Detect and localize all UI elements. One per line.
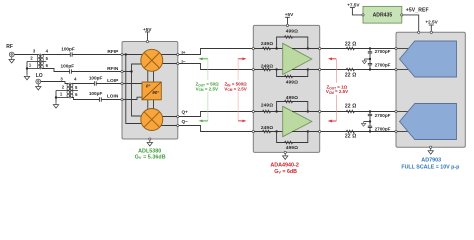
wire LOIP internal xyxy=(123,83,142,85)
wire I+ to amp xyxy=(179,49,253,55)
wire RFIP internal xyxy=(123,54,144,56)
svg-text:499Ω: 499Ω xyxy=(286,79,298,85)
pin (ADC1 IN-) xyxy=(395,68,397,70)
svg-text:RFIP: RFIP xyxy=(107,49,119,55)
svg-text:GV = 6dB: GV = 6dB xyxy=(274,169,297,175)
transformer T1 (RF balun) xyxy=(27,54,46,70)
annotation line ZOUT lower xyxy=(207,92,209,121)
ground (T1 primary) xyxy=(24,74,29,80)
wire C4 to LOIN xyxy=(101,99,122,101)
pin (AD7903 REF) xyxy=(418,31,420,33)
feedback loop R3 499 top xyxy=(277,37,308,49)
wire ADC1 input stubs xyxy=(397,49,408,70)
resistor R2 249 xyxy=(262,68,270,71)
pin (ADC1 IN+) xyxy=(395,47,397,49)
svg-text:ADA4940-2: ADA4940-2 xyxy=(270,162,298,168)
annotation line ZIN lower xyxy=(237,92,239,121)
node junction T1 pins 1-2 xyxy=(26,67,28,69)
svg-text:100pF: 100pF xyxy=(89,91,103,96)
capacitor C1 100pF xyxy=(70,52,72,56)
pin (ADL5380 VCC) xyxy=(146,40,148,42)
wire amp1 +out to ADC xyxy=(321,48,396,50)
pin (AD7903 VDD) xyxy=(430,31,432,33)
wire C3 to LOIP xyxy=(96,83,122,85)
svg-text:22 Ω: 22 Ω xyxy=(345,73,357,79)
wire amp2 top input xyxy=(254,111,282,113)
ground (RF connector shield) xyxy=(9,57,14,63)
pin (amp2 -in) xyxy=(252,130,254,132)
T1 pin numbers xyxy=(29,48,49,68)
wire T2 primary to ground xyxy=(55,91,57,103)
resistor R6 249 xyxy=(262,130,270,133)
pin (I- out) xyxy=(177,62,179,64)
ground (LO connector shield) xyxy=(36,84,41,90)
power symbol +2.5V xyxy=(429,24,434,26)
wire T2 pin4 to C3 xyxy=(72,83,95,85)
pin (amp1 +out) xyxy=(319,47,321,49)
ground (AD7903) xyxy=(428,148,433,154)
wire T1 primary to ground xyxy=(26,62,28,75)
pin (amp1 -out) xyxy=(319,68,321,70)
wire C2 to RFIN xyxy=(71,71,122,73)
svg-text:249Ω: 249Ω xyxy=(261,41,273,47)
pin (ADR435 VOUT) xyxy=(401,14,403,16)
wire amp2 outputs xyxy=(292,112,320,132)
svg-text:100pF: 100pF xyxy=(89,75,103,80)
node junction T2 pins 1-2 xyxy=(55,96,57,98)
connector J1 RF xyxy=(9,52,14,57)
IC U3 ADR435 body xyxy=(363,6,402,23)
wire LOIN internal xyxy=(123,97,142,99)
annotation arrow ZOUT (Q) xyxy=(199,120,208,123)
ground (T2 primary) xyxy=(53,102,58,108)
ground (RC midpoint 1) xyxy=(362,59,366,64)
phase splitter 0/90 xyxy=(142,82,161,100)
transformer T2 (LO balun) xyxy=(56,83,78,99)
wire T2 pin6 to C4 (with step) xyxy=(72,98,100,100)
pin (amp2 +out) xyxy=(319,110,321,112)
wire amp1 -out to ADC xyxy=(321,69,396,71)
wire phase splitter to I mixer xyxy=(148,70,154,83)
IC U4 AD7903 body xyxy=(396,32,465,147)
annotation arrow ZIN (I) xyxy=(238,57,246,60)
wire Q- to amp xyxy=(179,126,253,132)
node junction RFIP bus xyxy=(125,53,127,55)
capacitor C3 100pF xyxy=(94,81,96,85)
svg-text:2700pF: 2700pF xyxy=(375,126,391,131)
annotation line ZOUT amp lower xyxy=(335,95,337,121)
pin (LOIP) xyxy=(121,82,123,84)
svg-text:249Ω: 249Ω xyxy=(261,63,273,69)
pin (AD7903 GND) xyxy=(430,146,432,148)
IC U2 ADA4940-2 body xyxy=(253,25,319,152)
svg-text:LOIP: LOIP xyxy=(107,78,119,84)
resistor R12 22 xyxy=(346,130,354,133)
resistor R4 499 xyxy=(284,75,292,78)
wire cap midpoint to ground (2) xyxy=(364,121,370,123)
wire RF to T1 pin3 xyxy=(14,54,39,56)
wire amp1 top input xyxy=(254,48,282,50)
capacitor C4 100pF xyxy=(100,97,102,101)
pin (RFIN) xyxy=(121,70,123,72)
ground (RC midpoint 2) xyxy=(361,122,365,127)
wire RFIN bus to Q mixer xyxy=(132,72,145,117)
feedback loop R7 499 top xyxy=(277,102,308,112)
svg-text:22 Ω: 22 Ω xyxy=(345,103,357,109)
svg-text:Q−: Q− xyxy=(182,119,189,124)
feedback loop R8 499 bottom xyxy=(277,132,308,143)
ground (ADA4940) xyxy=(283,154,288,160)
pin (ADC2 IN+) xyxy=(395,110,397,112)
svg-text:2700pF: 2700pF xyxy=(375,49,391,54)
pin (Q+ out) xyxy=(177,115,179,117)
annotation arrow ZIN (Q) xyxy=(238,120,246,123)
pin (amp2 -out) xyxy=(319,130,321,132)
svg-text:LOIN: LOIN xyxy=(107,94,119,100)
wire amp2 bottom input xyxy=(254,131,282,133)
pin (Q- out) xyxy=(177,124,179,126)
op-amp A2 xyxy=(283,106,312,136)
wire T1 pin6 to C2 (with step) xyxy=(42,69,70,72)
pin (ADA4940 VCC) xyxy=(286,24,288,26)
pin (ADR435 VIN) xyxy=(362,14,364,16)
wire +2.5V to AD7903 xyxy=(430,25,432,31)
resistor R7 499 xyxy=(284,100,292,103)
pin (RFIP) xyxy=(121,53,123,55)
node junction RFIN bus xyxy=(130,70,132,72)
svg-text:0°: 0° xyxy=(146,83,151,88)
capacitor C7 2700pF xyxy=(369,112,371,132)
pin (amp1 +in) xyxy=(252,47,254,49)
resistor R10 22 xyxy=(346,68,354,71)
wire C1 to RFIP xyxy=(72,54,122,56)
svg-text:+2.5V: +2.5V xyxy=(425,20,438,25)
svg-text:499Ω: 499Ω xyxy=(286,145,298,151)
wire Q mixer outputs xyxy=(157,117,178,126)
resistor R8 499 xyxy=(284,141,292,144)
wire I mixer outputs xyxy=(157,55,178,64)
svg-text:AD7903: AD7903 xyxy=(421,158,441,164)
pins overlay xyxy=(121,14,433,154)
wire amp1 outputs xyxy=(292,49,320,70)
wire amp2 +out to ADC xyxy=(321,111,396,113)
resistor R3 499 xyxy=(284,36,292,39)
svg-text:RFIN: RFIN xyxy=(107,66,119,72)
svg-text:2700pF: 2700pF xyxy=(375,113,391,118)
power symbol +5V (ADL5380) xyxy=(145,31,150,33)
svg-text:90°: 90° xyxy=(152,90,159,95)
mixer M2 (Q channel) xyxy=(141,109,163,131)
capacitor C6 2700pF xyxy=(368,64,372,65)
pin (amp2 +in) xyxy=(252,110,254,112)
svg-text:249Ω: 249Ω xyxy=(261,125,273,131)
annotation arrow ZOUT amp1 xyxy=(328,57,336,60)
annotation line ZIN upper xyxy=(237,59,239,80)
connector J2 LO xyxy=(36,79,41,84)
wire phase splitter to Q mixer xyxy=(148,100,154,111)
pin (amp1 -in) xyxy=(252,68,254,70)
wire ADC2 input stubs xyxy=(397,112,408,132)
svg-text:ADR435: ADR435 xyxy=(373,13,393,19)
resistor R11 22 xyxy=(346,110,354,113)
annotation line ZOUT upper xyxy=(207,59,209,80)
wire +5V to ADA4940 xyxy=(287,17,289,24)
svg-text:+7.5V: +7.5V xyxy=(347,2,360,7)
ADC2 symbol xyxy=(400,104,457,140)
svg-text:+5V_REF: +5V_REF xyxy=(406,7,429,13)
svg-text:GV = 5.36dB: GV = 5.36dB xyxy=(135,154,166,160)
pin (ADA4940 GND) xyxy=(284,151,286,153)
svg-text:RF: RF xyxy=(6,44,13,50)
wire T1 pin4 to C1 xyxy=(42,54,71,56)
svg-text:2700pF: 2700pF xyxy=(375,62,391,67)
feedback loop R4 499 bottom xyxy=(277,70,308,77)
wire RFIP bus to Q mixer xyxy=(126,55,145,124)
pin (LOIN) xyxy=(121,98,123,100)
T2 pin numbers xyxy=(60,76,78,97)
resistor R1 249 xyxy=(262,47,270,50)
wire ADR435 to AD7903 REF xyxy=(403,15,419,31)
svg-text:499Ω: 499Ω xyxy=(286,95,298,101)
annotation arrow ZOUT amp2 xyxy=(328,119,337,122)
power symbol +5V (ADA4940) xyxy=(285,16,290,18)
power symbol +7.5V xyxy=(350,7,355,9)
svg-text:+5V: +5V xyxy=(285,12,294,17)
ground (ADL5380) xyxy=(147,140,152,146)
svg-text:+5V: +5V xyxy=(143,27,152,32)
node junctions amp1 xyxy=(275,47,309,70)
wire +7.5V to ADR435 xyxy=(352,8,362,15)
svg-text:249Ω: 249Ω xyxy=(261,103,273,109)
wire LO to T2 pin3 (with step) xyxy=(41,82,69,84)
pin (ADC2 IN-) xyxy=(395,130,397,132)
pin (ADL5380 GND) xyxy=(149,138,151,140)
resistor R9 22 xyxy=(346,47,354,50)
capacitor C5 2700pF xyxy=(369,49,371,70)
svg-text:LO: LO xyxy=(36,73,43,79)
svg-text:499Ω: 499Ω xyxy=(286,28,298,34)
svg-text:22 Ω: 22 Ω xyxy=(345,133,357,139)
wire I- to amp xyxy=(179,64,253,70)
svg-text:100pF: 100pF xyxy=(61,64,75,69)
wire RFIN internal xyxy=(123,64,142,72)
wire Q+ to amp xyxy=(179,112,253,117)
wire amp1 bottom input xyxy=(254,69,282,71)
IC U1 ADL5380 body xyxy=(122,42,178,140)
pin (I+ out) xyxy=(177,53,179,55)
capacitor C8 2700pF xyxy=(368,126,372,127)
capacitor C2 100pF xyxy=(70,69,72,73)
wire +5V to ADL5380 xyxy=(147,32,149,41)
annotation arrow ZOUT (I) xyxy=(199,57,208,60)
resistor R5 249 xyxy=(262,110,270,113)
svg-text:22 Ω: 22 Ω xyxy=(345,42,357,48)
op-amp A1 xyxy=(283,43,312,74)
svg-text:Q+: Q+ xyxy=(182,110,189,115)
node junctions C5 C6 xyxy=(369,47,371,70)
annotation line ZOUT amp upper xyxy=(335,59,337,83)
svg-text:100pF: 100pF xyxy=(61,46,75,51)
wire amp2 -out to ADC xyxy=(321,131,396,133)
ADC1 symbol xyxy=(400,41,457,77)
wire cap midpoint to ground (1) xyxy=(364,58,370,60)
node junctions C7 C8 xyxy=(369,110,371,132)
node junctions amp2 xyxy=(275,110,309,132)
mixer M1 (I channel) xyxy=(141,49,163,71)
svg-text:FULL SCALE = 10V p-p: FULL SCALE = 10V p-p xyxy=(401,165,460,171)
